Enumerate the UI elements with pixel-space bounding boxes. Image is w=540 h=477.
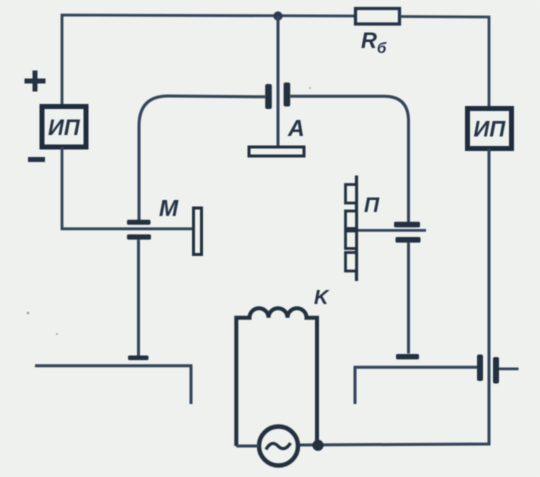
- scan speck 1: [27, 312, 29, 314]
- svg-text:ИП: ИП: [474, 117, 507, 142]
- grid П box 4: [346, 253, 357, 272]
- wire: top bus from left supply to node and resistor: [62, 15, 355, 107]
- wire: stub right of cathode feedthrough: [499, 367, 519, 370]
- svg-text:б: б: [377, 40, 387, 57]
- svg-text:M: M: [159, 195, 179, 221]
- right deflection plate stub: [396, 354, 419, 359]
- label Rб: [361, 28, 387, 57]
- scan speck 3: [309, 87, 311, 89]
- minus terminal label: [28, 157, 45, 162]
- coil K: [236, 308, 317, 446]
- anode feedthrough plate (right): [284, 83, 291, 107]
- wire: resistor to right supply: [400, 17, 489, 109]
- wire: from capacitor down to left deflection plate: [137, 240, 140, 356]
- wire: left supply minus lead down and right to modulator M: [62, 147, 192, 229]
- capacitor at П: top plate: [394, 222, 420, 228]
- capacitor at modulator: top plate: [127, 220, 151, 225]
- cathode feedthrough plate (left): [477, 355, 483, 382]
- wire: right supply down the right side to bottom bus: [300, 149, 489, 446]
- capacitor at П: bottom plate: [396, 237, 421, 243]
- svg-text:П: П: [364, 194, 380, 217]
- left bent plate electrode: [35, 366, 191, 404]
- AC source: [259, 427, 298, 466]
- anode feedthrough plate (left): [265, 84, 272, 109]
- wire: left branch from feedthrough, curved down to capacitor at M: [139, 96, 265, 220]
- resistor Rб: [356, 9, 400, 25]
- grid П box 2: [346, 211, 357, 229]
- scan speck 2: [56, 333, 58, 335]
- plus terminal label: [25, 71, 46, 92]
- svg-text:K: K: [314, 287, 330, 309]
- node junction at bottom: [312, 440, 323, 451]
- left deflection plate stub: [128, 356, 149, 361]
- wire: node down through anode feedthrough to plate A: [277, 16, 280, 147]
- wire: from П capacitor down to right deflection plate: [407, 243, 410, 354]
- power supply ИП (right): [468, 109, 512, 149]
- grid electrode П support: [355, 176, 358, 282]
- wire: grid П to capacitor: [357, 229, 427, 232]
- wire: coil left leg to AC source: [236, 445, 259, 448]
- electrode bar A: [249, 147, 304, 156]
- right bent plate electrode: [355, 367, 477, 404]
- node junction at top: [273, 11, 282, 20]
- svg-text:R: R: [361, 28, 377, 53]
- grid П box 1: [346, 185, 357, 204]
- svg-text:A: A: [287, 115, 305, 141]
- capacitor at modulator: bottom plate: [127, 234, 151, 239]
- grid П box 3: [346, 231, 357, 249]
- modulator electrode M: [194, 208, 202, 255]
- svg-text:ИП: ИП: [48, 115, 81, 140]
- wire: right branch from feedthrough, curved down to capacitor at П: [290, 96, 408, 222]
- cathode feedthrough plate (right): [493, 357, 499, 384]
- power supply ИП (left): [42, 107, 86, 148]
